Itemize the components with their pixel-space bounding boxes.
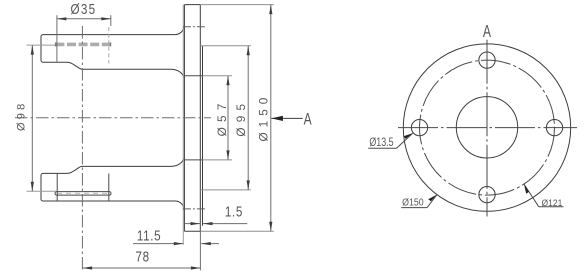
outer circle phi150 <box>403 44 570 211</box>
horizontal center line of part (dash-dot) <box>15 117 211 119</box>
svg-text:Ø150: Ø150 <box>402 197 424 208</box>
left end face upper ring segment <box>41 35 43 63</box>
svg-text:1.5: 1.5 <box>225 203 243 220</box>
bolt hole left <box>411 119 427 135</box>
horizontal center line (right view) <box>398 127 577 129</box>
phi95 step bottom edge + extension right <box>200 189 251 191</box>
dimension phi150: extension bottom right <box>200 230 273 232</box>
phi95 pilot step rear edge <box>202 46 204 226</box>
bore mouth bottom edge and cone to inner barrel <box>43 158 184 173</box>
dimension 78: extension line right (below flange back face) <box>199 231 201 270</box>
vertical center line of hidden feature x=82.4 (dash-dot) <box>81 26 83 271</box>
bolt hole right <box>546 119 562 135</box>
flange bottom edge <box>184 230 200 232</box>
dimension phi98: extension top (grey) <box>27 44 56 46</box>
svg-text:Ø13.5: Ø13.5 <box>369 137 393 149</box>
svg-text:Ø35: Ø35 <box>71 1 97 18</box>
outer barrel top edge with fillet into flange face <box>43 25 184 34</box>
label phi13.5 with leader to left bolt hole <box>368 147 396 149</box>
svg-text:Ø121: Ø121 <box>541 198 562 209</box>
hidden band top left cap <box>55 42 57 46</box>
svg-text:A: A <box>304 111 312 129</box>
flange front face (dark) <box>183 5 185 232</box>
flange top edge <box>184 4 200 6</box>
dimension phi95: dimension line vertical with arrows <box>247 46 249 190</box>
bolt circle phi121 (dash-dot) <box>420 60 555 195</box>
hidden vertical right extension dashed <box>108 27 110 64</box>
svg-text:A: A <box>483 22 491 42</box>
dimension 78: dimension line with arrows <box>83 267 201 269</box>
dimension 11.5: dimension line with outside arrows <box>133 243 183 245</box>
dimension phi150: extension top right <box>200 4 273 6</box>
vertical center line (right view) <box>486 40 488 217</box>
hidden verticals at bottom capsule left <box>56 174 58 202</box>
svg-text:Ø150: Ø150 <box>257 93 271 142</box>
svg-text:Ø95: Ø95 <box>234 99 248 137</box>
bolt hole center mark lower (in flange) <box>183 208 206 210</box>
extension line at flange front face (grey, for dim 11.5) <box>182 5 184 245</box>
bolt hole top <box>479 52 495 68</box>
svg-text:Ø98: Ø98 <box>16 101 28 131</box>
section arrow A (left view) <box>271 117 302 119</box>
hidden band top right cap <box>110 42 112 46</box>
dimension phi98: dimension line vertical <box>31 45 33 191</box>
dimension phi150: dimension line vertical with arrows <box>270 5 272 232</box>
label phi121 with leader to bolt circle <box>539 206 564 208</box>
dimension phi35: extension line left <box>56 15 58 62</box>
dimension 1.5: dimension line with outside arrows <box>185 223 201 225</box>
svg-text:78: 78 <box>135 248 149 265</box>
phi95 step top edge + extension right <box>200 45 251 47</box>
center bore circle phi57 <box>456 97 517 158</box>
hidden bottom capsule interior dashes <box>57 192 109 194</box>
dimension phi35: extension line right (dark above, hidden grey below) <box>110 15 112 26</box>
label phi150 with leader to outer circle <box>401 207 427 209</box>
dimension phi57: dimension line vertical with arrows <box>227 76 229 160</box>
hidden verticals at bottom capsule right <box>108 174 110 202</box>
outer barrel bottom edge with fillet into flange face <box>43 201 184 210</box>
left end face lower ring segment <box>41 173 43 201</box>
hidden feature bottom capsule outline <box>55 192 111 196</box>
flange back face <box>199 5 201 232</box>
bore through flange top edge + extension right for phi57 <box>184 75 202 77</box>
bore through flange bottom edge + extension right for phi57 <box>184 159 202 161</box>
dimension phi98: extension bottom (grey) <box>27 190 57 192</box>
bolt hole bottom <box>479 186 495 202</box>
dimension phi35: dimension line with arrows <box>57 18 111 20</box>
svg-text:11.5: 11.5 <box>137 227 161 244</box>
bore mouth top edge and cone to inner barrel <box>43 62 184 77</box>
hidden feature top band (grey thick dashes) <box>55 43 110 47</box>
bolt hole center mark upper (in flange) <box>183 26 206 28</box>
svg-text:Ø57: Ø57 <box>215 98 229 136</box>
